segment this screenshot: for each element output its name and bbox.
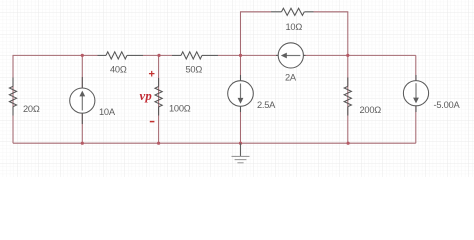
resistor R 20ohm [9, 78, 16, 116]
wire: top rail 40ohm to 50ohm [143, 54, 172, 56]
svg-text:2.5A: 2.5A [257, 100, 276, 110]
resistor R 50ohm [172, 52, 218, 59]
current source I4 -5.00A [403, 75, 428, 112]
current source I1 10A [70, 77, 95, 124]
node junction bottom 10A [81, 142, 84, 145]
resistor R 40ohm [98, 52, 144, 59]
svg-text:10Ω: 10Ω [286, 22, 303, 32]
wire: right branch -5A [415, 55, 417, 143]
wire: top rail left segment [13, 55, 98, 143]
resistor R 200ohm [344, 78, 351, 116]
svg-text:2A: 2A [285, 73, 297, 83]
node junction bottom ground [239, 142, 242, 145]
label vp minus [150, 121, 155, 123]
svg-text:20Ω: 20Ω [23, 104, 40, 114]
svg-text:50Ω: 50Ω [186, 65, 203, 75]
svg-text:10A: 10A [99, 107, 116, 117]
svg-text:40Ω: 40Ω [110, 65, 127, 75]
wire: top rail 50ohm to 2A [218, 54, 278, 56]
resistor R 10ohm [271, 8, 314, 15]
svg-text:200Ω: 200Ω [360, 105, 382, 115]
resistor R 100ohm [155, 78, 162, 116]
svg-text:+: + [149, 69, 155, 81]
node junction bottom 200ohm [347, 142, 350, 145]
svg-text:-5.00A: -5.00A [434, 100, 461, 110]
wire: upper 10ohm branch [241, 12, 272, 56]
node junction top 100ohm [157, 54, 160, 57]
node junction bottom 100ohm [157, 142, 160, 145]
wire: 200ohm branch [347, 55, 349, 143]
ground [240, 143, 242, 156]
wire: 10A branch [81, 55, 83, 143]
wire: upper branch right side [314, 12, 348, 56]
node junction top 10A [81, 54, 84, 57]
svg-text:vp: vp [140, 89, 153, 103]
current source I2 2.5A [228, 75, 254, 112]
wire: top rail 2A to right corner [303, 54, 416, 56]
current source I3 2A [276, 43, 306, 68]
node junction top 200ohm [346, 54, 349, 57]
wire: 100ohm branch [158, 55, 160, 143]
node junction top 2.5A [239, 54, 242, 57]
wire: bottom rail [13, 142, 416, 144]
wire: 2.5A branch [240, 55, 242, 143]
svg-text:100Ω: 100Ω [169, 104, 191, 114]
